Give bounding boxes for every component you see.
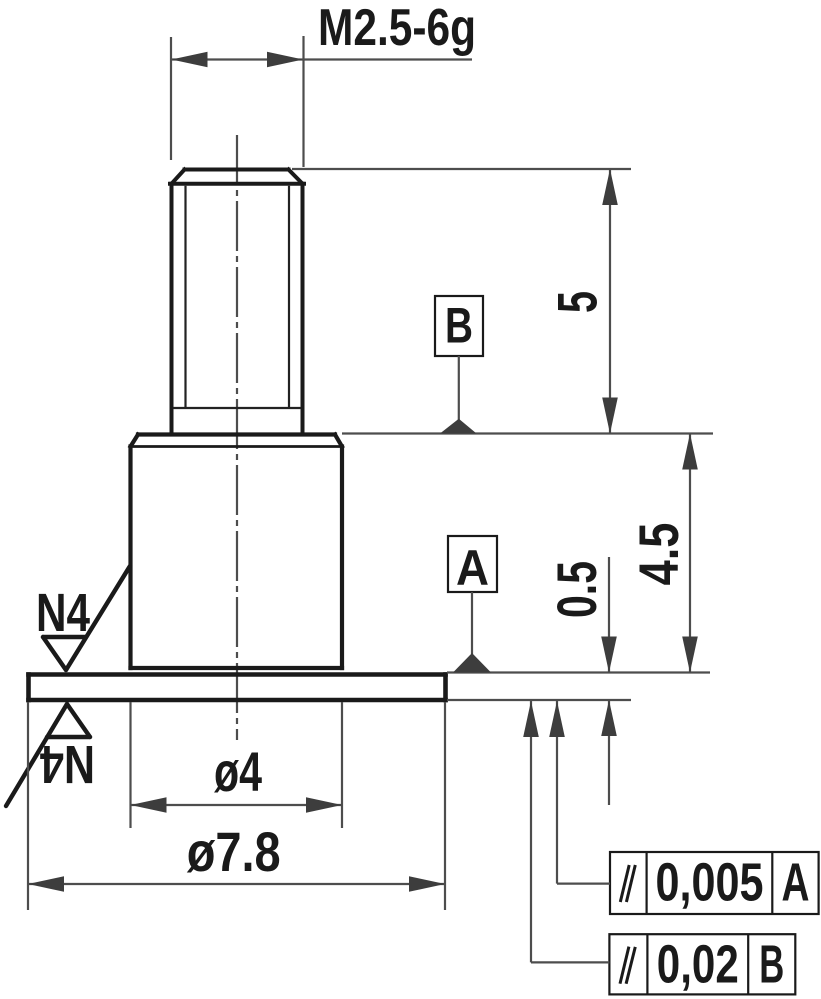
svg-text:A: A [456, 540, 489, 596]
thread minor diameter lines [173, 186, 301, 408]
centerline [236, 135, 238, 740]
svg-text:N4: N4 [36, 583, 90, 643]
dimension diameter 7.8 [28, 702, 445, 910]
svg-text:N4: N4 [40, 734, 95, 794]
threaded stud outline [170, 170, 304, 434]
svg-text:4.5: 4.5 [627, 523, 690, 586]
svg-text:B: B [445, 298, 473, 354]
extension line flange bottom right [447, 699, 631, 701]
leader for frame 0,005 A [557, 701, 610, 884]
surface finish N4 lower (rotated 180) [6, 704, 95, 806]
feature control frame 0,02 B [609, 934, 795, 994]
cylinder body outline [131, 435, 343, 669]
svg-text:B: B [759, 935, 784, 995]
svg-text:M2.5-6g: M2.5-6g [318, 0, 476, 57]
surface finish N4 upper [36, 566, 130, 670]
svg-text:0.5: 0.5 [545, 561, 608, 618]
svg-text:A: A [782, 853, 810, 913]
svg-text:ø4: ø4 [214, 740, 262, 803]
svg-text:0,02: 0,02 [657, 935, 739, 995]
dimension 4.5 [627, 434, 698, 673]
feature control frame 0,005 A [610, 852, 819, 914]
cylinder neck line [129, 445, 344, 448]
dimension M2.5-6g label [318, 0, 476, 57]
flange outline [29, 675, 446, 701]
extension line stud bottom right [342, 432, 713, 434]
svg-text:5: 5 [546, 291, 609, 313]
extension line stud top right [292, 168, 631, 170]
dimension diameter 4 [131, 702, 343, 828]
dimension 0.5 [545, 557, 617, 805]
datum B symbol [435, 296, 483, 434]
dimension M2.5-6g lines and arrows [171, 36, 472, 167]
svg-text:0,005: 0,005 [656, 853, 764, 913]
extension line flange top right [447, 671, 710, 673]
datum A symbol [448, 536, 497, 673]
dimension 5 [546, 169, 618, 434]
leader for frame 0,02 B [531, 701, 609, 962]
svg-text:ø7.8: ø7.8 [187, 820, 281, 883]
